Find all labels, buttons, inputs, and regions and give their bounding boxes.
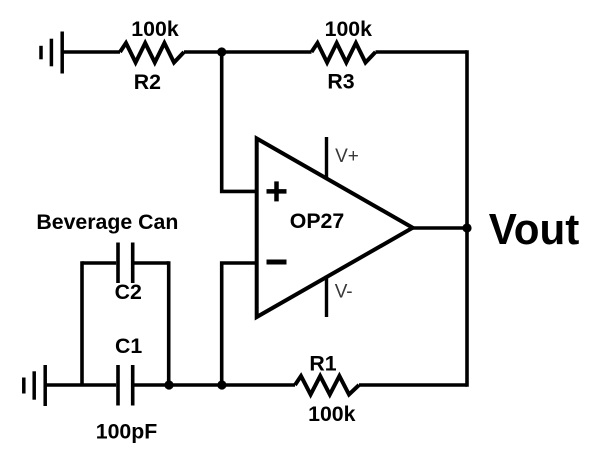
wire: R1 to bottom-right corner [359, 383, 467, 387]
svg-text:Vout: Vout [489, 205, 580, 254]
svg-text:Beverage Can: Beverage Can [36, 210, 178, 234]
pin V- [325, 276, 328, 318]
svg-text:OP27: OP27 [290, 209, 344, 233]
resistor R3 [312, 43, 376, 63]
resistor R2 [120, 43, 184, 63]
wire: can right vertical [167, 261, 171, 385]
svg-text:V-: V- [335, 282, 353, 303]
node: junction dot at top wire / non-inverting branch [217, 47, 226, 56]
node: Vout junction dot [462, 223, 471, 232]
svg-text:V+: V+ [335, 146, 359, 167]
svg-text:R1: R1 [309, 351, 336, 375]
capacitor C1 [118, 365, 133, 406]
wire: R2 to R3 (top) [184, 50, 312, 54]
wire: top ground to R2 [62, 50, 120, 54]
wire: C2 right lead [135, 261, 169, 265]
svg-text:100k: 100k [131, 17, 179, 41]
wire: inverting input down to bottom rail [222, 263, 257, 385]
svg-text:R3: R3 [327, 70, 354, 94]
wire: op-amp output to Vout rail [413, 226, 467, 230]
ground (top-left) [41, 32, 62, 74]
svg-text:100k: 100k [325, 17, 373, 41]
svg-text:C1: C1 [115, 334, 142, 358]
wire: R3 to top-right corner [376, 50, 468, 54]
wire: bottom ground to C1 [45, 383, 116, 387]
node: junction dot inverting branch/bottom rail [217, 380, 226, 389]
op-amp U1 [257, 139, 413, 318]
svg-text:100k: 100k [308, 402, 356, 426]
svg-text:100pF: 100pF [96, 420, 158, 444]
wire: can left vertical [80, 261, 84, 385]
node: junction dot can/bottom rail [164, 380, 173, 389]
wire: C1 to R1 (bottom rail) [135, 383, 296, 387]
pin V+ [325, 137, 328, 179]
wire: C2 left lead [82, 261, 116, 265]
capacitor C2 [118, 243, 133, 284]
svg-text:R2: R2 [134, 70, 161, 94]
op-amp plus input symbol [267, 181, 287, 201]
wire: right vertical (feedback rail) [465, 50, 469, 387]
svg-text:C2: C2 [115, 280, 142, 304]
wire: junction down to non-inverting input [222, 52, 257, 191]
op-amp minus input symbol [267, 260, 287, 265]
resistor R1 [295, 376, 359, 395]
ground (bottom-left) [24, 365, 45, 406]
